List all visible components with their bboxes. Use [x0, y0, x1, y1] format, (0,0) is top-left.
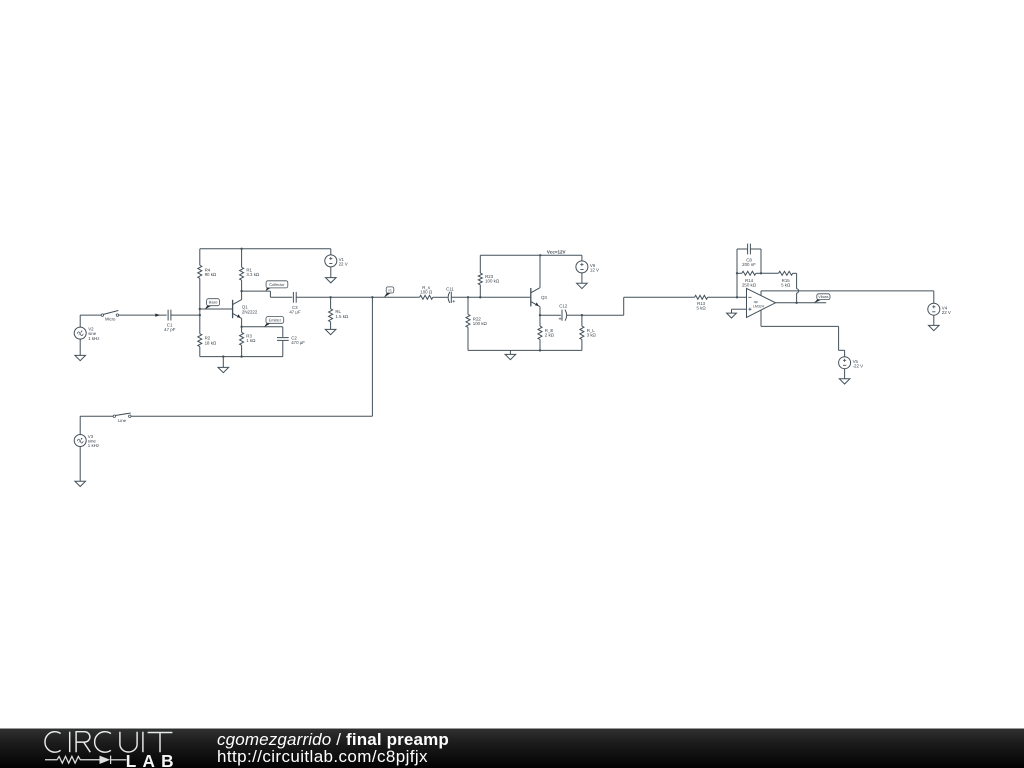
svg-text:C11: C11: [446, 286, 454, 291]
svg-text:12 V: 12 V: [590, 268, 599, 273]
wire C8 right: [751, 249, 761, 273]
node Q1 emitter junction: [240, 326, 242, 328]
svg-text:Collector: Collector: [269, 282, 285, 287]
label Vcc: [547, 249, 566, 254]
node C11-R22: [467, 296, 469, 298]
node rail-R1: [240, 248, 242, 250]
transistor Q3: [531, 288, 548, 307]
tag Base: [205, 299, 220, 310]
voltage source V1 22 V: [325, 255, 348, 267]
resistor R_L 3 k: [580, 315, 597, 350]
node R14 left: [736, 272, 738, 274]
ground under V5: [839, 379, 850, 384]
wire V1 drop: [330, 249, 332, 255]
CircuitLab logo wordmark CIRCUIT: [45, 732, 172, 753]
node emitter junction Q3: [539, 314, 541, 316]
bottom rail stage1: [200, 356, 242, 358]
logo resistor-diode glyph: [45, 756, 126, 764]
wire C1 to base node: [171, 314, 200, 316]
svg-text:LAB: LAB: [126, 751, 180, 768]
resistor R_s 100: [420, 285, 433, 299]
resistor R_E 2 k: [538, 315, 555, 350]
svg-text:5 kΩ: 5 kΩ: [781, 283, 791, 288]
svg-text:47 pF: 47 pF: [164, 327, 176, 332]
wire C11 to node: [451, 296, 468, 298]
ground under V4: [929, 325, 940, 330]
transistor Q1 2N2222: [233, 300, 258, 319]
svg-text:200 nF: 200 nF: [742, 262, 756, 267]
tag Vbass: [814, 294, 830, 303]
svg-text:Micro: Micro: [105, 317, 116, 322]
node RL top: [329, 296, 331, 298]
node base junction: [199, 308, 201, 310]
ground under V3: [75, 481, 86, 486]
svg-text:90 kΩ: 90 kΩ: [205, 272, 217, 277]
resistor RL 1.5 k: [329, 297, 349, 329]
capacitor C1 47 pF: [164, 310, 176, 333]
wire C2 bottom: [242, 341, 283, 357]
wire C12 to RL2: [566, 314, 582, 316]
wire opamp output: [776, 302, 827, 304]
capacitor C2 470 uF: [277, 335, 305, 345]
resistor R1 3.3 k: [240, 249, 260, 291]
resistor R4 90 k: [198, 265, 217, 278]
wire ground stub stage2: [509, 350, 511, 354]
wire R15 down with hop: [797, 273, 799, 303]
svg-text:v1: v1: [388, 288, 392, 292]
capacitor C3 47 uF: [289, 292, 301, 315]
ground under V2 wire: [79, 339, 81, 355]
top rail stage1: [200, 248, 331, 250]
resistor R14 250 k: [737, 271, 761, 287]
ground under V2: [75, 355, 86, 360]
svg-text:LM324: LM324: [753, 305, 764, 309]
wire V6 to ground: [581, 273, 583, 283]
svg-text:Emitter: Emitter: [269, 317, 282, 322]
resistor R3 1 k: [240, 327, 257, 357]
node Vcc-collector: [539, 254, 541, 256]
wire base: [200, 308, 232, 310]
resistor R23 100 k: [478, 255, 500, 297]
wire base row stage2: [468, 296, 530, 298]
node R23-base: [479, 296, 481, 298]
voltage source V2 (sine 1 kHz): [74, 327, 99, 341]
node inverting input: [736, 296, 738, 298]
ground stage1: [218, 367, 229, 372]
wire noninverting to ground: [732, 309, 747, 313]
svg-text:C12: C12: [559, 304, 568, 309]
tag Emitter: [264, 317, 284, 328]
ground under V6: [577, 283, 588, 288]
wire Q3 emitter: [539, 307, 541, 316]
svg-text:22 V: 22 V: [339, 262, 348, 267]
resistor R2 18 k: [198, 334, 217, 347]
wire collector row: [242, 291, 293, 297]
wire V1 to ground: [330, 267, 332, 278]
wire V3 to ground: [79, 447, 81, 482]
svg-text:100 kΩ: 100 kΩ: [485, 279, 500, 284]
Vcc rail stage2: [480, 254, 582, 256]
wire Q1 collector: [241, 291, 243, 300]
svg-text:18 kΩ: 18 kΩ: [205, 340, 217, 345]
ground stage2: [505, 354, 516, 359]
voltage source V4 22 V: [928, 303, 951, 315]
svg-text:47 µF: 47 µF: [289, 310, 301, 315]
wire ground stub stage1: [222, 357, 224, 368]
svg-text:1 kHz: 1 kHz: [88, 336, 99, 341]
voltage source V5 -22 V: [839, 357, 864, 369]
node v1 junction: [371, 296, 373, 298]
svg-text:Base: Base: [209, 300, 218, 305]
capacitor C12 (polarized): [559, 304, 568, 321]
current arrow: [155, 314, 160, 317]
resistor R15 5 k: [761, 271, 797, 287]
svg-text:2 kΩ: 2 kΩ: [545, 333, 555, 338]
wire node A up: [737, 249, 747, 297]
footer bar: [0, 728, 1024, 768]
wire V2 to switch: [80, 315, 101, 327]
wire Rs to C11: [433, 296, 448, 298]
node R14 right: [760, 272, 762, 274]
svg-text:Vcc=12V: Vcc=12V: [547, 249, 566, 254]
svg-text:22 V: 22 V: [942, 310, 951, 315]
resistor R22 100 k: [466, 297, 488, 350]
svg-text:100 Ω: 100 Ω: [420, 290, 433, 295]
svg-text:Q3: Q3: [541, 295, 547, 300]
svg-text:3 kΩ: 3 kΩ: [587, 333, 597, 338]
wire Q1 emitter: [241, 318, 243, 326]
opamp V+ pin wire: [761, 291, 934, 303]
ground under RL: [325, 329, 336, 334]
wire RL node to v1 node: [331, 296, 373, 298]
node input junction: [199, 314, 201, 316]
svg-text:2N2222: 2N2222: [242, 309, 258, 314]
svg-text:-22 V: -22 V: [853, 364, 864, 369]
wire switch to C1: [119, 314, 167, 316]
wire emitter row stage2: [540, 314, 561, 316]
ground at opamp plus: [727, 313, 737, 318]
wire C3 to RL node: [296, 296, 330, 298]
node rail-R3: [240, 355, 242, 357]
wire V5 to ground: [844, 369, 846, 379]
bottom rail stage2: [468, 349, 582, 351]
capacitor C11 (polarized): [446, 286, 455, 303]
opamp V- pin wire: [761, 310, 845, 357]
tag Collector: [266, 281, 288, 291]
wire V4 to ground: [933, 315, 935, 325]
svg-text:100 kΩ: 100 kΩ: [473, 321, 488, 326]
svg-text:470 µF: 470 µF: [291, 340, 305, 345]
wire v1 node to Rs: [372, 296, 419, 298]
node output-feedback: [795, 302, 797, 304]
switch SW2 Line: [113, 413, 131, 423]
tag v1: [384, 287, 394, 298]
wire v1 down to line loop: [131, 297, 372, 416]
node C12-RL2: [581, 314, 583, 316]
node rail-RE: [539, 349, 541, 351]
wire base-column vertical: [199, 249, 201, 357]
svg-text:250 kΩ: 250 kΩ: [742, 283, 757, 288]
wire line switch to V3: [80, 416, 113, 434]
node rail-ground: [222, 355, 224, 357]
svg-text:Line: Line: [118, 418, 127, 423]
svg-text:1.5 kΩ: 1.5 kΩ: [335, 314, 349, 319]
wire emitter row: [242, 327, 283, 337]
resistor R13 5 k: [695, 295, 708, 310]
svg-text:1 kΩ: 1 kΩ: [246, 338, 256, 343]
wire Q3 collector: [539, 255, 541, 288]
svg-text:Vbass: Vbass: [818, 295, 828, 299]
voltage source V6 12 V: [576, 255, 599, 273]
wire to stage3: [582, 297, 695, 315]
wire R13 to opamp: [708, 296, 747, 298]
svg-text:1 kHz: 1 kHz: [88, 443, 99, 448]
switch SW1 Micro: [101, 311, 118, 322]
svg-text:3.3 kΩ: 3.3 kΩ: [246, 272, 260, 277]
ground under V1: [326, 278, 337, 283]
op-amp OP1 LM324: [747, 288, 776, 317]
svg-text:5 kΩ: 5 kΩ: [697, 306, 707, 311]
capacitor C8 200 nF: [742, 244, 756, 268]
voltage source V3 (sine 1 kHz): [74, 434, 99, 448]
node collector junction: [240, 290, 242, 292]
